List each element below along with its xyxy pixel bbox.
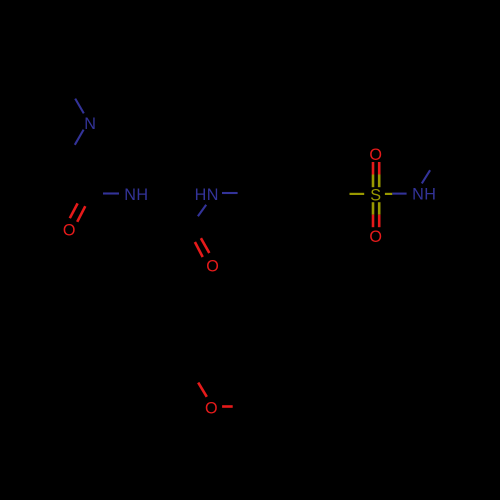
svg-text:NH: NH <box>412 186 436 204</box>
double bond S1=O4 line b upper half near S1 <box>378 202 381 215</box>
double bond C=O2 line a (half near O2) <box>195 242 203 257</box>
double bond C=O1 line b (half near O1) <box>77 206 85 222</box>
svg-text:O: O <box>369 228 382 246</box>
bond CH3-N1 (half near N1) <box>75 99 84 114</box>
double bond C=O2 line b (half near O2) <box>201 238 209 253</box>
bond C(=O)-N2 (half near N2) <box>103 192 119 194</box>
double bond S1=O3 line b lower half near S1 <box>378 175 381 188</box>
svg-text:O: O <box>206 257 219 275</box>
double bond C=O1 line a (half near O1) <box>70 203 78 218</box>
bond phenyl-S1 (half near S1) <box>350 193 365 195</box>
double bond S1=O4 line a upper half near S1 <box>372 202 375 215</box>
svg-text:HN: HN <box>195 186 219 204</box>
svg-text:S: S <box>370 187 381 205</box>
double bond S1=O4 line b lower half near O4 <box>378 215 381 228</box>
svg-text:O: O <box>63 222 76 240</box>
bond N3-C(=O) (half near N3) <box>198 205 206 216</box>
bond N1-CH2 (half near N1) <box>75 130 84 145</box>
bond O5-CH3 (half near O5) <box>222 405 233 408</box>
double bond S1=O3 line a lower half near S1 <box>372 175 375 188</box>
svg-text:O: O <box>205 400 218 418</box>
svg-text:O: O <box>369 146 382 164</box>
double bond S1=O3 line b upper half near O3 <box>378 162 381 175</box>
bond N3-phenyl (half near N3) <box>222 192 238 194</box>
svg-text:NH: NH <box>124 186 148 204</box>
bond S1-N4 half near S1 <box>385 193 392 195</box>
bond S1-N4 half near N4 <box>392 193 406 195</box>
double bond S1=O3 line a upper half near O3 <box>372 162 375 175</box>
double bond S1=O4 line a lower half near O4 <box>372 215 375 228</box>
bond N4-CH3 (half near N4) <box>422 170 430 183</box>
svg-text:N: N <box>84 115 96 133</box>
bond phenyl-O5 (half near O5) <box>198 383 207 397</box>
